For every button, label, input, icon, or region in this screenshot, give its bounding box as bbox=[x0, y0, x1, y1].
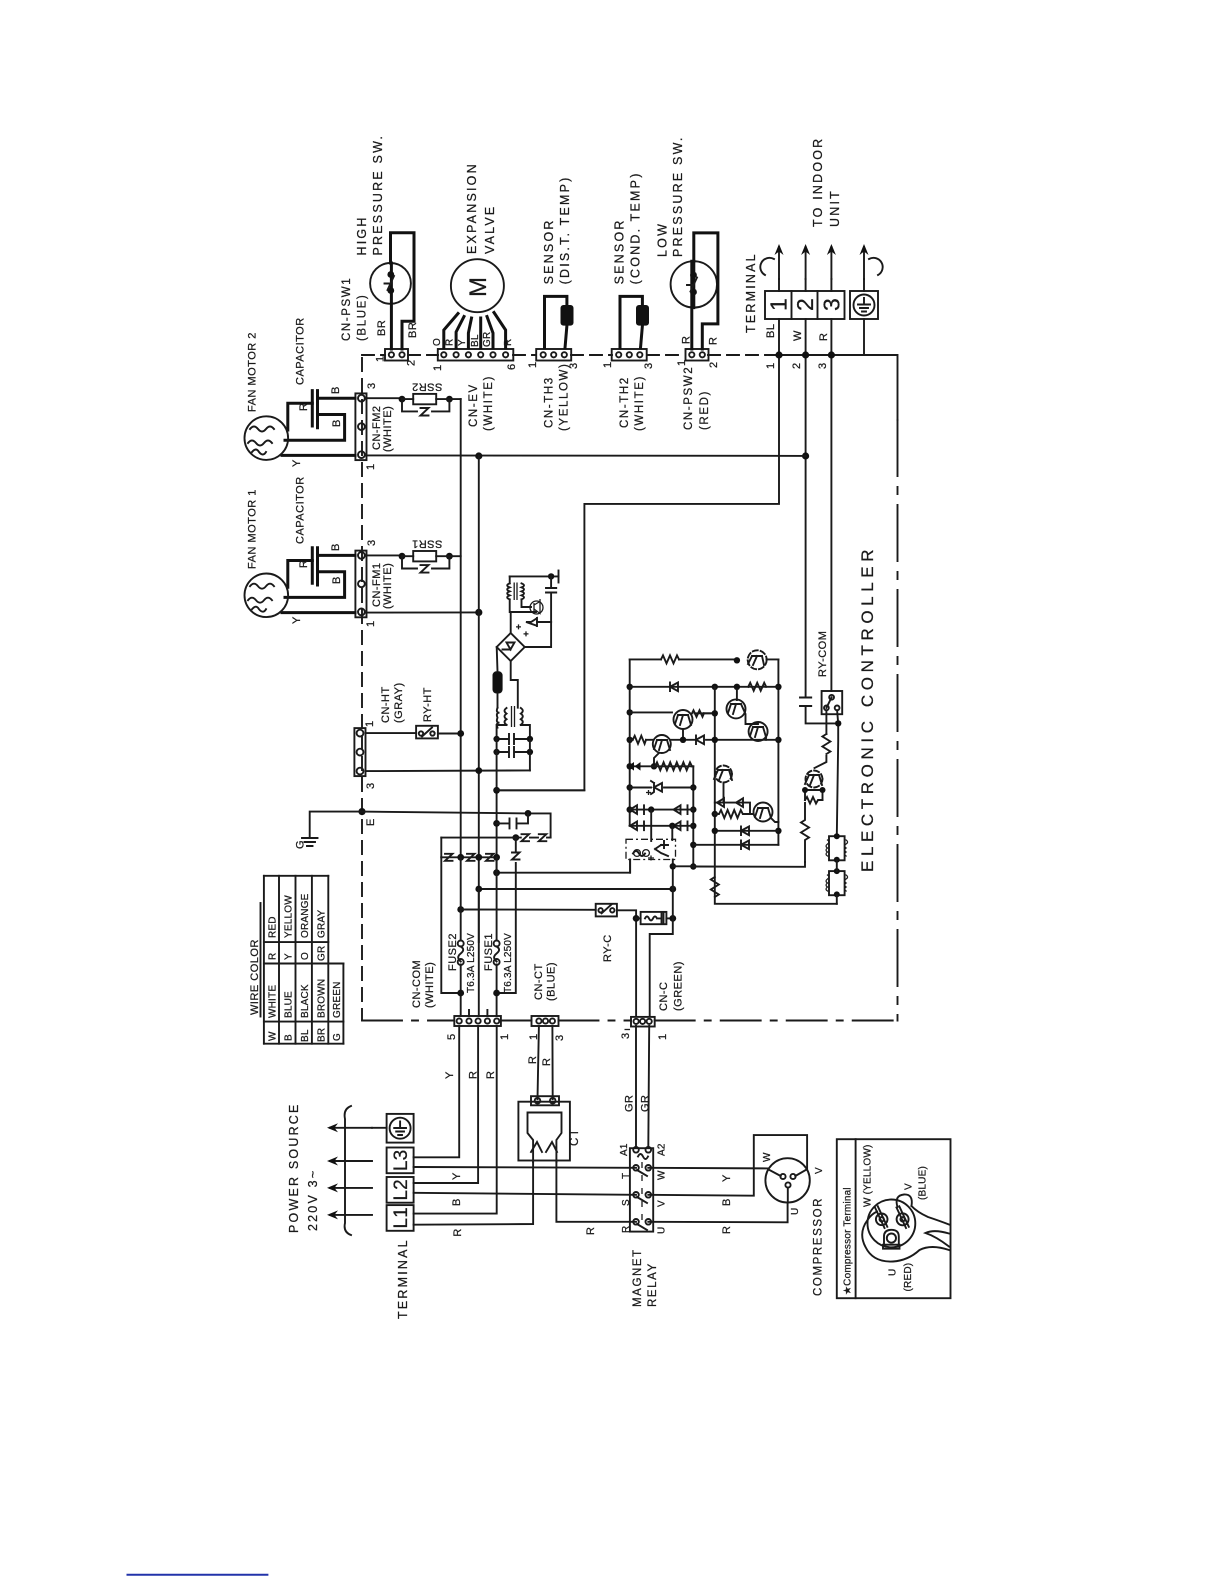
svg-text:1: 1 bbox=[765, 362, 777, 369]
svg-text:GR: GR bbox=[316, 946, 327, 961]
fuse F-psu bbox=[493, 671, 503, 693]
svg-text:W: W bbox=[762, 1152, 773, 1162]
diode D6 D7 row7 bbox=[630, 809, 694, 811]
svg-text:POWER SOURCE: POWER SOURCE bbox=[287, 1102, 301, 1233]
connector CN-EV bbox=[432, 349, 518, 431]
svg-text:2: 2 bbox=[791, 362, 803, 369]
svg-text:B: B bbox=[331, 419, 343, 427]
svg-text:(WHITE): (WHITE) bbox=[483, 375, 495, 431]
svg-text:(WHITE): (WHITE) bbox=[634, 375, 646, 431]
terminal block top right bbox=[744, 252, 845, 333]
relay contact RY-COM bbox=[822, 691, 843, 714]
wire y866 bbox=[693, 862, 805, 867]
svg-text:Y: Y bbox=[457, 339, 468, 346]
svg-text:R: R bbox=[681, 336, 693, 344]
wire B loop bbox=[285, 415, 345, 441]
svg-text:BL: BL bbox=[470, 334, 481, 347]
svg-text:R: R bbox=[818, 333, 830, 341]
svg-text:R: R bbox=[452, 1228, 464, 1236]
svg-text:FAN MOTOR 1: FAN MOTOR 1 bbox=[247, 489, 259, 569]
svg-text:LOW: LOW bbox=[656, 222, 670, 257]
svg-text:L2: L2 bbox=[391, 1179, 412, 1200]
svg-text:1: 1 bbox=[365, 620, 377, 627]
svg-text:A1: A1 bbox=[619, 1143, 630, 1156]
resistor R3 bbox=[692, 710, 704, 717]
svg-text:3: 3 bbox=[366, 539, 378, 546]
svg-text:GR: GR bbox=[624, 1095, 636, 1113]
svg-text:1: 1 bbox=[527, 361, 539, 368]
terminal drawing bbox=[868, 1200, 916, 1248]
varistor pair row bbox=[512, 834, 519, 841]
svg-text:B: B bbox=[330, 543, 342, 551]
svg-text:5: 5 bbox=[446, 1033, 458, 1040]
svg-text:R: R bbox=[621, 1226, 632, 1233]
svg-text:ELECTRONIC CONTROLLER: ELECTRONIC CONTROLLER bbox=[858, 545, 877, 872]
svg-text:WIRE COLOR: WIRE COLOR bbox=[249, 939, 261, 1015]
wire CN-HT pin3 to power block bbox=[366, 769, 530, 772]
opto-coupler PC1 bbox=[626, 839, 676, 859]
wire varistor row bbox=[441, 856, 496, 858]
wire to chassis ground bbox=[510, 575, 559, 577]
varistor Z5 Z6 bbox=[516, 834, 551, 841]
sensor COND.TEMP thermistor bbox=[613, 171, 650, 348]
svg-text:R: R bbox=[467, 1071, 479, 1079]
transistor Q2 bbox=[674, 710, 693, 729]
svg-text:R: R bbox=[485, 1071, 497, 1079]
terminal L3 bbox=[387, 1148, 414, 1174]
svg-text:(WHITE): (WHITE) bbox=[424, 962, 436, 1008]
CT current transformer bbox=[518, 1096, 636, 1222]
wire y790 bbox=[497, 789, 585, 791]
svg-text:3: 3 bbox=[554, 1034, 566, 1041]
wires relay coil up to CN-C bbox=[636, 1026, 649, 1148]
compressor terminal detail box bbox=[837, 1139, 951, 1298]
svg-text:R: R bbox=[541, 1058, 553, 1066]
svg-text:1: 1 bbox=[676, 359, 688, 366]
svg-text:(BLUE): (BLUE) bbox=[546, 962, 558, 1001]
svg-text:CN-PSW1: CN-PSW1 bbox=[341, 277, 353, 341]
relay coil RY-C bbox=[633, 889, 677, 1016]
svg-text:2: 2 bbox=[406, 359, 418, 366]
indoor unit arrows bbox=[760, 137, 882, 291]
svg-text:(BLUE): (BLUE) bbox=[357, 294, 369, 341]
svg-text:G: G bbox=[295, 840, 307, 849]
resistor R6 bbox=[715, 810, 753, 818]
svg-text:3: 3 bbox=[365, 782, 377, 789]
svg-text:1: 1 bbox=[432, 364, 444, 371]
connector CN-C bbox=[620, 961, 685, 1040]
resistor R7 bbox=[825, 710, 827, 734]
zener D-psu bbox=[526, 618, 537, 626]
table grid bbox=[264, 876, 344, 1044]
svg-text:CN-PSW2: CN-PSW2 bbox=[683, 366, 695, 430]
svg-text:HIGH: HIGH bbox=[355, 215, 369, 255]
svg-text:T: T bbox=[621, 1173, 632, 1179]
svg-text:BR: BR bbox=[316, 1028, 327, 1042]
svg-text:1: 1 bbox=[365, 463, 377, 470]
svg-text:R: R bbox=[503, 339, 514, 346]
varistor Z1 Z2 Z3 bbox=[445, 854, 494, 861]
svg-text:FUSE1: FUSE1 bbox=[483, 933, 495, 971]
sensor DIS.T.TEMP thermistor bbox=[542, 175, 574, 348]
terminal wires 1 2 3 E bbox=[497, 319, 864, 790]
wire cap to pin3 bbox=[318, 397, 356, 400]
svg-text:V: V bbox=[904, 1183, 915, 1190]
wire RY-COM to FR stack bbox=[837, 710, 838, 836]
svg-text:1: 1 bbox=[657, 1033, 669, 1040]
svg-text:W: W bbox=[657, 1170, 668, 1180]
svg-text:B: B bbox=[721, 1198, 733, 1206]
power source label bbox=[287, 1102, 372, 1235]
high pressure switch HPS bbox=[355, 134, 419, 349]
svg-text:(COND. TEMP): (COND. TEMP) bbox=[629, 171, 643, 284]
svg-text:R: R bbox=[298, 403, 310, 411]
svg-text:GREEN: GREEN bbox=[332, 981, 343, 1018]
svg-text:PRESSURE SW.: PRESSURE SW. bbox=[671, 135, 685, 257]
capacitor C-psu3 bbox=[497, 747, 530, 757]
resistor R9 bbox=[711, 877, 719, 897]
wire cap left to motor bbox=[288, 403, 313, 430]
footer blue line bbox=[127, 1574, 269, 1576]
svg-text:CAPACITOR: CAPACITOR bbox=[295, 317, 307, 385]
svg-text:SSR2: SSR2 bbox=[412, 381, 443, 393]
svg-text:S: S bbox=[621, 1199, 632, 1206]
controller dash-dot right border bbox=[897, 420, 899, 1021]
capacitor C-E bbox=[497, 813, 528, 828]
svg-text:BLACK: BLACK bbox=[300, 984, 311, 1018]
wire y837 bbox=[441, 837, 516, 839]
wire CN-FM1 pin1 long horizontal bbox=[367, 611, 479, 613]
svg-text:RY-HT: RY-HT bbox=[422, 687, 434, 722]
fan motor 1 group bbox=[244, 548, 366, 618]
svg-text:BL: BL bbox=[300, 1029, 311, 1042]
svg-text:Y: Y bbox=[444, 1071, 456, 1079]
resistor R1 row1 bbox=[630, 658, 779, 660]
relay contact RY-HT bbox=[366, 687, 465, 738]
svg-text:6: 6 bbox=[506, 363, 518, 370]
svg-text:TO INDOOR: TO INDOOR bbox=[811, 137, 825, 227]
svg-text:EXPANSION: EXPANSION bbox=[465, 162, 479, 254]
svg-text:B: B bbox=[330, 386, 342, 394]
svg-text:CN-TH3: CN-TH3 bbox=[544, 376, 556, 428]
compressor wires bbox=[648, 1135, 807, 1234]
power earth box bbox=[372, 1114, 414, 1143]
power arrows bbox=[330, 1128, 372, 1215]
svg-text:CN-HT: CN-HT bbox=[380, 686, 392, 723]
wire Y motor to pin1 bbox=[282, 454, 355, 457]
svg-text:R: R bbox=[708, 337, 720, 345]
fuse rails and CN-COM bbox=[411, 857, 514, 1040]
svg-text:1: 1 bbox=[374, 355, 386, 362]
mid rail bottom resistor bbox=[712, 811, 718, 817]
wire color table bbox=[249, 876, 343, 1044]
svg-text:GR: GR bbox=[482, 332, 493, 347]
diode D10 row y845 bbox=[693, 844, 778, 846]
svg-text:WHITE: WHITE bbox=[268, 985, 279, 1018]
svg-text:1: 1 bbox=[602, 361, 614, 368]
svg-text:3: 3 bbox=[817, 362, 829, 369]
svg-text:★Compressor Terminal: ★Compressor Terminal bbox=[843, 1187, 854, 1295]
transistor Q3 bbox=[727, 699, 746, 718]
svg-text:ORANGE: ORANGE bbox=[300, 893, 311, 938]
motor M2 circle bbox=[244, 416, 288, 460]
compressor motor bbox=[762, 1152, 825, 1296]
svg-text:W: W bbox=[268, 1031, 279, 1041]
fuse FUSE1 bbox=[496, 857, 498, 1016]
svg-text:COMPRESSOR: COMPRESSOR bbox=[813, 1197, 825, 1296]
svg-text:W: W bbox=[792, 330, 804, 341]
svg-text:2: 2 bbox=[708, 361, 720, 368]
svg-text:BLUE: BLUE bbox=[284, 991, 295, 1018]
svg-text:GRAY: GRAY bbox=[316, 909, 327, 938]
wire rail 497 bbox=[496, 770, 498, 872]
node E and ground G bbox=[295, 808, 378, 849]
svg-text:T6.3A L250V: T6.3A L250V bbox=[466, 933, 477, 993]
svg-text:V: V bbox=[814, 1167, 825, 1174]
wires CN-COM to L-blocks bbox=[414, 1026, 497, 1214]
SSR1 bbox=[367, 538, 461, 573]
svg-text:FAN MOTOR 2: FAN MOTOR 2 bbox=[247, 332, 259, 412]
svg-text:CN-C: CN-C bbox=[658, 982, 670, 1012]
power supply block bbox=[441, 571, 584, 994]
svg-text:L3: L3 bbox=[391, 1150, 412, 1171]
fuse FUSE2 bbox=[460, 857, 462, 1016]
resistor R4 bbox=[633, 736, 646, 744]
relay contact RY-C bbox=[457, 904, 636, 1016]
diode D8 D9 row8 bbox=[630, 825, 694, 827]
wire rail 693 bbox=[692, 766, 694, 866]
svg-text:BR: BR bbox=[376, 320, 388, 336]
cap C-E bbox=[493, 820, 500, 827]
svg-text:E: E bbox=[365, 818, 377, 826]
svg-text:RED: RED bbox=[268, 916, 279, 938]
svg-text:3: 3 bbox=[620, 1032, 632, 1039]
svg-text:GR: GR bbox=[640, 1095, 652, 1113]
varistor Z4 bbox=[512, 853, 520, 860]
svg-text:V: V bbox=[657, 1200, 668, 1207]
connector CN-PSW2 bbox=[676, 349, 720, 430]
svg-text:SENSOR: SENSOR bbox=[613, 218, 627, 284]
terminal L1 bbox=[387, 1205, 414, 1231]
svg-text:B: B bbox=[331, 576, 343, 584]
wire left rail bbox=[629, 659, 631, 825]
svg-text:U: U bbox=[790, 1208, 801, 1215]
zener D5 row6 bbox=[630, 787, 694, 789]
transistor Q-psu bbox=[522, 599, 532, 607]
svg-text:(RED): (RED) bbox=[699, 390, 711, 430]
svg-text:1: 1 bbox=[364, 720, 376, 727]
diode D11 row y831 bbox=[715, 830, 779, 832]
terminal earth box bbox=[850, 291, 878, 319]
magnet relay bbox=[619, 1026, 668, 1307]
svg-text:(GRAY): (GRAY) bbox=[393, 682, 405, 723]
svg-text:CAPACITOR: CAPACITOR bbox=[295, 476, 307, 544]
svg-text:TERMINAL: TERMINAL bbox=[744, 252, 758, 333]
expansion valve M bbox=[432, 162, 514, 348]
low pressure switch LPS bbox=[656, 135, 720, 349]
resistor R5 bbox=[655, 762, 692, 770]
svg-text:L1: L1 bbox=[391, 1207, 412, 1228]
resistor R8 bbox=[801, 803, 809, 862]
svg-text:(WHITE): (WHITE) bbox=[382, 406, 394, 452]
fan motor 2 group bbox=[244, 391, 366, 460]
varistor row y857 bbox=[440, 838, 442, 858]
svg-text:W (YELLOW): W (YELLOW) bbox=[863, 1144, 874, 1207]
svg-text:B: B bbox=[284, 1034, 295, 1041]
connector CN-PSW1 bbox=[341, 277, 418, 366]
capacitor C-FM1 bbox=[312, 548, 317, 585]
svg-text:3: 3 bbox=[643, 362, 655, 369]
SSR2 bbox=[367, 381, 461, 416]
svg-text:Y: Y bbox=[291, 459, 303, 467]
L block second wires long bbox=[414, 1161, 636, 1237]
svg-text:R: R bbox=[298, 560, 310, 568]
wire psu top bbox=[509, 576, 511, 583]
svg-text:(GREEN): (GREEN) bbox=[673, 961, 685, 1011]
svg-text:MAGNET: MAGNET bbox=[632, 1248, 644, 1307]
wire row4 bbox=[630, 739, 779, 741]
svg-text:CN-COM: CN-COM bbox=[411, 960, 423, 1008]
svg-text:3: 3 bbox=[366, 382, 378, 389]
svg-text:A2: A2 bbox=[657, 1143, 668, 1156]
transistor Q4 bbox=[749, 722, 768, 741]
connector CN-FM2 bbox=[355, 393, 366, 460]
rail 460.7 vertical bbox=[460, 399, 462, 857]
controller dashed top bus bbox=[362, 354, 768, 356]
svg-text:G: G bbox=[332, 1033, 343, 1041]
opto coupler PC1 bbox=[650, 810, 652, 841]
capacitor C-psu1 bbox=[546, 576, 556, 622]
connector CN-TH3 bbox=[527, 349, 580, 431]
svg-text:Y: Y bbox=[284, 953, 295, 960]
svg-text:2: 2 bbox=[792, 298, 818, 311]
transformer T1 bbox=[497, 708, 500, 728]
svg-text:YELLOW: YELLOW bbox=[284, 895, 295, 938]
transistor Q5 bbox=[653, 735, 671, 753]
E line to cap subcircuit bbox=[362, 812, 551, 838]
rail 478.8 vertical bbox=[478, 456, 480, 942]
svg-text:FUSE2: FUSE2 bbox=[447, 933, 459, 971]
wire y889 bbox=[479, 888, 673, 890]
svg-text:B: B bbox=[451, 1198, 463, 1206]
wire right rail bbox=[777, 659, 779, 844]
bridge rectifier BR1 bbox=[497, 633, 525, 661]
svg-text:SSR1: SSR1 bbox=[412, 538, 443, 550]
connector CN-HT bbox=[354, 682, 405, 789]
svg-text:RY-COM: RY-COM bbox=[817, 631, 829, 677]
transistor Q1 bbox=[748, 650, 767, 669]
power source brace bbox=[345, 1106, 351, 1235]
rail 478.8 to pin3 bbox=[478, 889, 480, 1016]
svg-text:3: 3 bbox=[819, 298, 845, 311]
opto-coupler PC2 bbox=[715, 766, 732, 783]
wire row5 bbox=[630, 765, 694, 767]
connector CN-CT bbox=[527, 962, 566, 1099]
wire loop right bbox=[497, 838, 516, 993]
diode D1 row2 bbox=[630, 686, 779, 688]
svg-text:R: R bbox=[268, 953, 279, 960]
Q5 leg bbox=[654, 753, 659, 766]
controller dash-dot bottom border bbox=[362, 1020, 898, 1022]
diode D3 D4 bbox=[628, 762, 641, 771]
svg-text:T6.3A L250V: T6.3A L250V bbox=[503, 933, 514, 993]
svg-text:VALVE: VALVE bbox=[483, 205, 497, 254]
controller border top-right solid bbox=[768, 355, 898, 420]
svg-text:1: 1 bbox=[499, 1033, 511, 1040]
svg-text:O: O bbox=[432, 338, 443, 346]
controller internals bbox=[626, 631, 848, 904]
terminal L2 bbox=[387, 1177, 414, 1203]
svg-text:U: U bbox=[657, 1227, 668, 1234]
transistor Q6 bbox=[754, 803, 773, 822]
svg-text:(DIS.T. TEMP): (DIS.T. TEMP) bbox=[558, 175, 572, 284]
fusible resistor FR1 bbox=[829, 836, 845, 860]
svg-text:U: U bbox=[888, 1269, 899, 1276]
svg-text:BROWN: BROWN bbox=[316, 979, 327, 1018]
svg-text:RELAY: RELAY bbox=[647, 1262, 659, 1307]
svg-text:(RED): (RED) bbox=[903, 1263, 914, 1292]
svg-text:(WHITE): (WHITE) bbox=[382, 563, 394, 609]
svg-text:TERMINAL: TERMINAL bbox=[396, 1238, 410, 1319]
svg-text:1: 1 bbox=[766, 298, 792, 311]
svg-text:PRESSURE SW.: PRESSURE SW. bbox=[371, 134, 385, 256]
svg-text:Y: Y bbox=[451, 1172, 463, 1180]
svg-text:R: R bbox=[585, 1227, 597, 1235]
capacitor C-FM2 bbox=[312, 391, 317, 428]
svg-text:(YELLOW): (YELLOW) bbox=[559, 363, 571, 431]
svg-text:Y: Y bbox=[721, 1174, 733, 1182]
svg-text:CN-TH2: CN-TH2 bbox=[619, 376, 631, 428]
connector CN-TH2 bbox=[602, 349, 655, 431]
svg-text:CN-CT: CN-CT bbox=[533, 963, 545, 1000]
diode D2 bbox=[696, 736, 704, 745]
svg-text:(BLUE): (BLUE) bbox=[918, 1166, 929, 1200]
connector CN-COM bbox=[454, 1016, 501, 1026]
svg-text:220V 3~: 220V 3~ bbox=[306, 1169, 320, 1231]
svg-text:BL: BL bbox=[765, 324, 777, 338]
resistor R2 bbox=[748, 683, 766, 691]
svg-text:CN-EV: CN-EV bbox=[468, 383, 480, 427]
wire mid rail bbox=[715, 687, 837, 904]
svg-text:Y: Y bbox=[291, 616, 303, 624]
svg-text:BR: BR bbox=[407, 322, 419, 338]
wire CN-FM2 pin1 long horizontal to W bbox=[367, 454, 806, 457]
svg-text:R: R bbox=[527, 1056, 539, 1064]
svg-text:R: R bbox=[445, 339, 456, 346]
svg-text:R: R bbox=[721, 1226, 733, 1234]
fusible resistor FR2 bbox=[829, 871, 845, 895]
chassis ground bbox=[558, 571, 560, 583]
motor M1 circle bbox=[244, 574, 288, 618]
svg-text:UNIT: UNIT bbox=[828, 189, 842, 227]
outer loop wires bbox=[441, 857, 460, 993]
svg-text:RY-C: RY-C bbox=[602, 934, 614, 962]
controller dashed border left vertical bbox=[361, 358, 363, 1020]
svg-text:SENSOR: SENSOR bbox=[542, 218, 556, 284]
opto-coupler PC3 bbox=[806, 771, 823, 788]
wire y872 to controller bbox=[497, 860, 630, 873]
svg-text:CT: CT bbox=[569, 1127, 581, 1146]
row 802 diodes bbox=[715, 783, 750, 815]
capacitor C-psu2 bbox=[497, 734, 530, 744]
wire row3 bbox=[630, 711, 715, 714]
svg-text:M: M bbox=[465, 277, 492, 297]
svg-text:O: O bbox=[300, 952, 311, 960]
